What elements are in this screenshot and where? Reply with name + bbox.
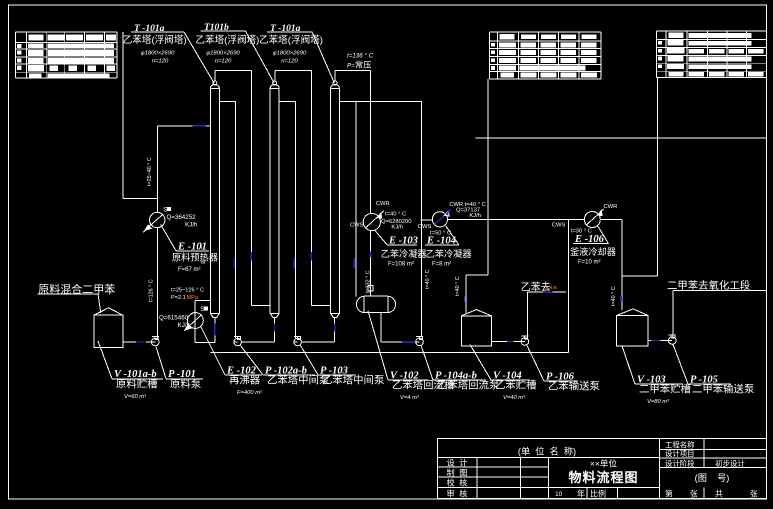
wire: E-106 outlet (600, 219, 622, 221)
V-104 tank roof (462, 310, 492, 316)
svg-text:×××: ××× (545, 283, 558, 292)
wire: T3 bottom stub blue (334, 324, 336, 332)
svg-text:CWR: CWR (376, 201, 390, 207)
title block (437, 438, 766, 498)
small fitting on V-102 feed (368, 286, 373, 291)
wire: T3 side loop down to reflux drum V-102 (355, 101, 357, 296)
svg-text:乙苯冷凝器: 乙苯冷凝器 (381, 248, 427, 259)
wire: T2 bottom stub white 2 (274, 332, 276, 343)
wire: T1 vapor riser (214, 71, 216, 82)
pump P-105: xylene transfer pump (668, 335, 676, 344)
svg-text:P=2.1: P=2.1 (171, 295, 186, 301)
label group: P-103 (301, 346, 319, 375)
wire: T2 vapor riser (274, 71, 276, 82)
E-101 diagonal (149, 215, 163, 227)
svg-text:E -103: E -103 (388, 235, 418, 246)
stream data table 1 (top left) (16, 32, 118, 78)
E-103 arrowhead (377, 213, 382, 218)
wire: T3 vapor riser (334, 71, 336, 82)
underline: E-104 (425, 244, 459, 246)
wire: T2 bottom stub blue (274, 324, 276, 332)
svg-text:KJ/h: KJ/h (391, 224, 403, 230)
svg-text:E -106: E -106 (574, 234, 605, 245)
svg-text:工程名称: 工程名称 (665, 441, 695, 450)
vessel V-102 (reflux drum) (357, 296, 396, 312)
svg-text:F=67 m²: F=67 m² (178, 267, 201, 273)
E-102 arrowhead (185, 325, 191, 330)
svg-text:乙苯塔(浮阀塔): 乙苯塔(浮阀塔) (123, 34, 187, 46)
svg-text:t=40 ° C: t=40 ° C (455, 276, 461, 296)
leader: E-104 (446, 226, 459, 245)
svg-text:E -104: E -104 (426, 235, 456, 246)
wire: P-102 discharge to T2 bottom stub (241, 341, 274, 343)
svg-text:制 图: 制 图 (447, 467, 468, 477)
label group: P-101 (156, 347, 166, 379)
svg-text:原料预热器: 原料预热器 (172, 251, 218, 262)
svg-text:(单 位 名 称): (单 位 名 称) (518, 446, 576, 457)
wire: V-103 to P-105 white2 (661, 340, 669, 342)
svg-text:t=40 ° C: t=40 ° C (425, 269, 431, 289)
V-101 tank body (94, 315, 123, 347)
svg-text:乙苯塔(浮阀塔): 乙苯塔(浮阀塔) (195, 34, 259, 46)
svg-text:P=: P= (347, 63, 355, 70)
wire: E-102 loop left (194, 300, 196, 342)
wire: table3 leader horizontal (622, 275, 658, 277)
svg-text:校 核: 校 核 (447, 477, 468, 487)
wire: T1 side loop down to pump P-102 (235, 101, 237, 338)
wire: V-104 to P-106 white (491, 341, 507, 343)
wire: P-104 discharge riser (reflux) (420, 101, 422, 336)
svg-text:F=8 m²: F=8 m² (432, 262, 451, 268)
wire: T2 vapor downcomer to T3 (310, 71, 312, 306)
svg-text:t=136 ° C: t=136 ° C (347, 53, 374, 60)
svg-text:CWS: CWS (552, 223, 566, 229)
svg-text:乙苯塔中间泵: 乙苯塔中间泵 (322, 374, 384, 387)
tower T-101c (ethylbenzene column c) (331, 81, 340, 318)
wire: T2 feed entry (251, 304, 270, 306)
svg-text:F=10 m²: F=10 m² (578, 259, 601, 265)
label group: P-105 (673, 345, 688, 385)
svg-text:张: 张 (690, 489, 698, 498)
wire: V-103 to P-105 white (648, 340, 651, 342)
wire: E-106 outlet down to V-103 (621, 220, 623, 311)
svg-text:F=108 m²: F=108 m² (388, 262, 414, 268)
svg-text:第: 第 (665, 488, 673, 498)
svg-text:KJ/h: KJ/h (178, 322, 191, 329)
E-104 diagonal blue (435, 215, 446, 225)
svg-text:t=126 ° C: t=126 ° C (148, 279, 154, 302)
svg-text:t=25~126 ° C: t=25~126 ° C (171, 288, 204, 294)
V-101 tank roof (94, 308, 123, 315)
svg-text:CWS: CWS (418, 224, 432, 230)
wire: E-103 outlet down to V-102 (370, 230, 372, 296)
svg-text:n=120: n=120 (281, 59, 298, 65)
wire: blue mark on T2 downcomer (310, 252, 312, 261)
underline: E-101 (176, 250, 209, 252)
leader: T101b to tower2 (246, 31, 275, 83)
wire: V-104 to P-106 blue (507, 341, 514, 343)
svg-text:二甲苯贮槽: 二甲苯贮槽 (639, 383, 691, 396)
svg-text:V=80 m³: V=80 m³ (647, 399, 670, 405)
leader: E-101 (161, 224, 176, 250)
leader: E-106 (598, 226, 609, 243)
wire: feed stream line (38, 293, 99, 295)
wire: xylene product line (673, 290, 767, 292)
wire: V-104 feed down (465, 275, 467, 313)
wire: tank to P-101 white2 (146, 341, 151, 343)
wire: blue mark on T1 loop (233, 258, 235, 269)
svg-text:设 计: 设 计 (447, 457, 468, 467)
wire: tank to P-101 blue (136, 341, 146, 343)
svg-text:初步设计: 初步设计 (715, 459, 745, 468)
pump P-101: feed pump (152, 337, 160, 346)
wire: T3 bottom stub white (334, 318, 336, 324)
leader: T-101c to tower3 (312, 32, 334, 83)
wire: E-101 down to pump P-101 (156, 228, 158, 338)
wire: E-104 to E-106 line (448, 219, 585, 221)
svg-text:CWR: CWR (604, 204, 618, 210)
svg-text:V=40 m³: V=40 m³ (503, 395, 526, 401)
svg-text:Q=364252: Q=364252 (167, 214, 197, 221)
wire: P-106 discharge riser (527, 292, 529, 336)
svg-text:t=40 ° C: t=40 ° C (385, 211, 406, 217)
svg-text:φ1800×2690: φ1800×2690 (206, 50, 240, 56)
pump P-106: EB transfer pump (521, 336, 529, 345)
E-104 arrowhead blue (445, 211, 450, 216)
svg-text:年: 年 (577, 488, 585, 498)
svg-text:比例: 比例 (590, 488, 606, 498)
V-104 tank body (462, 316, 492, 346)
E-106 arrowhead (598, 211, 603, 216)
svg-text:物料流程图: 物料流程图 (568, 470, 638, 485)
wire: T2 bottom stub white (274, 318, 276, 324)
wire: P-103 discharge to T3 bottom stub (301, 341, 334, 343)
wire: T3 side loop top / reflux return header (339, 100, 422, 102)
stream data table 3 (top right) (657, 31, 767, 78)
E-102 diagonal (189, 315, 202, 327)
wire: feed line blue segment (193, 125, 207, 127)
wire: blue mark on T2 loop (293, 258, 295, 268)
svg-text:KJ/h: KJ/h (469, 213, 481, 219)
wire: feed line E-101 to T1 white (157, 125, 192, 127)
svg-text:乙苯输送泵: 乙苯输送泵 (548, 380, 600, 393)
label group: V-103 (622, 346, 635, 384)
wire: E-102 loop top (195, 299, 211, 301)
wire: V-103 to P-105 blue (651, 340, 661, 342)
svg-text:t=40 ° C: t=40 ° C (611, 286, 617, 306)
svg-text:t=25~40 ° C: t=25~40 ° C (147, 157, 153, 186)
wire: blue mark on V-104 feed (464, 297, 466, 302)
svg-text:乙苯塔(浮阀塔): 乙苯塔(浮阀塔) (259, 34, 323, 46)
svg-text:设计项目: 设计项目 (665, 449, 695, 458)
svg-text:常压: 常压 (355, 60, 371, 70)
svg-text:设计阶段: 设计阶段 (665, 459, 695, 468)
svg-text:二甲苯去氧化工段: 二甲苯去氧化工段 (667, 279, 750, 292)
wire: V-102 to P-104 white (381, 341, 402, 343)
svg-text:二甲苯输送泵: 二甲苯输送泵 (692, 383, 754, 396)
wire: T2 side loop top (279, 100, 296, 102)
wire: T1 bottom stub white 2 (214, 336, 216, 343)
V-103 tank body (617, 316, 649, 346)
pump P-103: tower middle pump 2 (294, 337, 302, 346)
wire: EB product line white (528, 291, 543, 293)
wire: T1 side loop top (219, 100, 235, 102)
svg-text:原料泵: 原料泵 (170, 377, 201, 390)
leader: T-101a to tower1 (184, 32, 214, 83)
tower T-101b (ethylbenzene column b) (270, 81, 279, 318)
wire: EB product line white2 (553, 291, 567, 293)
wire: P-105 discharge riser (672, 291, 674, 336)
E-104 arrow tail blue (447, 209, 451, 213)
svg-text:审 核: 审 核 (447, 488, 468, 498)
svg-text:乙苯贮槽: 乙苯贮槽 (495, 379, 537, 392)
wire: T3 vapor line down to E-103 (370, 71, 372, 214)
V-102 left seam (363, 296, 365, 312)
wire: T3 bottom stub white 2 (334, 332, 336, 343)
wire: T1 bottom stub white (214, 318, 216, 324)
label group: V-101a-b (98, 341, 112, 379)
label group: P-104a-b (421, 345, 433, 380)
svg-text:CWS: CWS (350, 223, 364, 229)
wire: tank to P-101 white (123, 341, 136, 343)
wire: blue mark on V-103 feed (620, 296, 622, 302)
wire: blue mark on T1 downcomer (250, 252, 252, 261)
wire: riser P-101 to E-101 (156, 126, 158, 213)
label group: V-104 (470, 345, 491, 381)
wire: riser stub into E-104 (421, 219, 433, 221)
wire: E-102 loop bottom (195, 341, 215, 343)
wire: T2 side loop down to pump P-103 (295, 101, 297, 338)
heat exchanger E-103 (EB condenser) (363, 213, 380, 230)
underline: E-103 (387, 244, 417, 246)
E-101 arrow tail (143, 229, 146, 232)
V-102 right seam (387, 296, 389, 312)
leader: E-103 (374, 230, 387, 245)
E-101 arrowhead (145, 225, 152, 230)
pump P-102a-b: tower middle pump 1 (234, 337, 242, 346)
heat exchanger E-106 (bottoms cooler) (584, 212, 600, 228)
wire: blue mark on T3 loop (353, 258, 355, 268)
E-103 arrow tail to CWR (379, 211, 384, 216)
wire: V-104 to P-106 white2 (514, 341, 522, 343)
wire: table2 leader horizontal (466, 274, 488, 276)
svg-text:V=60 m³: V=60 m³ (124, 394, 147, 400)
svg-text:n=120: n=120 (215, 59, 232, 65)
wire: T1 bottom stub blue (214, 324, 216, 336)
underline: E-106 (573, 243, 609, 245)
E-106 diagonal (587, 214, 599, 225)
wire: T2 vapor top run (275, 70, 312, 72)
wire: table3 leader vertical (657, 78, 659, 276)
wire: long bottom header (210, 352, 568, 354)
wire: V-102 outlet down (380, 313, 382, 343)
wire: blue mark below E-103 (370, 251, 372, 257)
svg-text:n=120: n=120 (152, 59, 169, 65)
svg-text:F=400 m²: F=400 m² (237, 390, 263, 396)
svg-text:(图 号): (图 号) (695, 473, 730, 483)
wire: feed diagonal into tank (98, 294, 101, 313)
label group: V-102 (368, 311, 388, 380)
wire: T3 feed entry (311, 304, 330, 306)
svg-text:φ1800×2690: φ1800×2690 (141, 50, 175, 56)
stream data table 2 (top middle) (490, 32, 601, 79)
wire: V-102 to P-104 blue (402, 341, 415, 343)
label group: P-102a-b (241, 346, 264, 375)
svg-text:釜液冷却器: 釜液冷却器 (570, 246, 616, 257)
svg-text:V=4 m³: V=4 m³ (400, 395, 420, 401)
svg-text:张: 张 (750, 489, 758, 498)
wire: table1 leader vertical (122, 32, 124, 199)
svg-text:××单位: ××单位 (590, 458, 618, 469)
wire: long line to right border (475, 137, 766, 139)
svg-text:乙苯冷凝器: 乙苯冷凝器 (426, 248, 472, 259)
wire: table2 leader vertical (487, 79, 489, 275)
pump P-104a-b: reflux pump (416, 337, 424, 346)
V-103 tank roof (617, 309, 649, 316)
label group: P-106 (527, 346, 544, 382)
svg-text:E -101: E -101 (177, 241, 207, 252)
svg-text:Q=615460: Q=615460 (159, 315, 189, 322)
wire: EB product line blue (543, 291, 553, 293)
E-103 diagonal (366, 217, 378, 228)
svg-text:乙苯塔回流泵: 乙苯塔回流泵 (437, 379, 499, 392)
E-106 arrow tail (600, 209, 604, 213)
wire: T1 vapor downcomer to T2 (250, 71, 252, 306)
svg-text:KJ/h: KJ/h (185, 222, 198, 229)
wire: T1 vapor top run (215, 70, 251, 72)
wire: T3 vapor top run (335, 70, 371, 72)
svg-text:原料贮槽: 原料贮槽 (116, 377, 158, 390)
svg-text:共: 共 (715, 489, 723, 498)
svg-text:10: 10 (555, 491, 563, 498)
wire: feed line white end (206, 125, 210, 127)
svg-text:再沸器: 再沸器 (229, 374, 261, 387)
svg-text:φ1800×2690: φ1800×2690 (273, 50, 307, 56)
tower T-101a (ethylbenzene column a) (210, 81, 219, 318)
wire: header riser to E-106 inlet line (567, 220, 569, 353)
label group: E-102 (201, 327, 225, 375)
wire: table1 leader horizontal to feed line (123, 198, 158, 200)
